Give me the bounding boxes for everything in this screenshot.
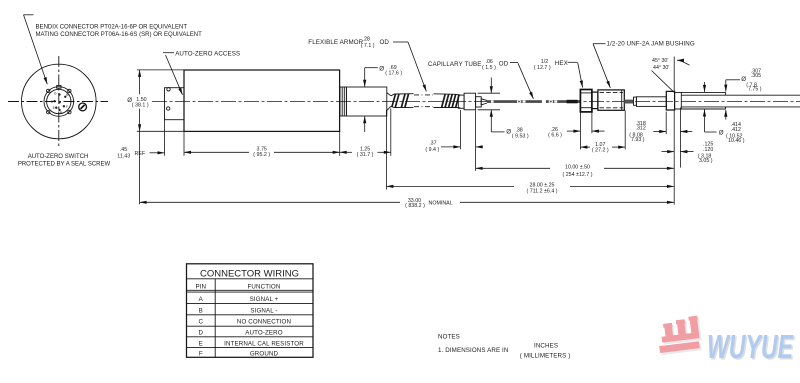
- svg-text:CAPILLARY TUBE: CAPILLARY TUBE: [428, 61, 482, 68]
- dim .38 dia: [478, 78, 529, 140]
- svg-text:( 38.1 ): ( 38.1 ): [132, 103, 149, 109]
- angle callout 45 30: [652, 58, 690, 92]
- capillary tube: [487, 100, 581, 104]
- svg-text:.45: .45: [120, 147, 127, 153]
- svg-text:D: D: [199, 329, 204, 336]
- svg-text:INCHES: INCHES: [534, 342, 558, 349]
- svg-text:NOMINAL: NOMINAL: [429, 200, 453, 206]
- armor coil strokes: [392, 94, 459, 108]
- dim 33.00 nominal: [140, 198, 674, 209]
- dim .318: [629, 112, 666, 144]
- jam bushing label: [593, 41, 695, 88]
- svg-text:Ø: Ø: [506, 128, 511, 135]
- dim 1.07: [580, 142, 625, 154]
- wuyue logo mark: [656, 316, 703, 355]
- auto-zero switch note: [18, 154, 111, 168]
- svg-text:AUTO-ZERO ACCESS: AUTO-ZERO ACCESS: [175, 50, 240, 57]
- extension lines left: [165, 109, 391, 190]
- svg-text:MATING CONNECTOR PT06A-16-6S: MATING CONNECTOR PT06A-16-6S (SR) OR EQU…: [36, 32, 203, 38]
- svg-text:INTERNAL CAL RESISTOR: INTERNAL CAL RESISTOR: [224, 340, 304, 347]
- svg-text:( 12.7 ): ( 12.7 ): [534, 65, 551, 71]
- svg-text:.120: .120: [703, 147, 713, 153]
- svg-text:PROTECTED BY A SEAL SCREW: PROTECTED BY A SEAL SCREW: [18, 161, 111, 167]
- svg-text:BENDIX CONNECTOR PT02A-16-6P: BENDIX CONNECTOR PT02A-16-6P OR EQUIVALE…: [36, 24, 188, 30]
- svg-text:F: F: [199, 351, 203, 358]
- auto-zero access label: [163, 50, 240, 95]
- svg-text:F: F: [66, 105, 68, 109]
- notes: [438, 334, 570, 360]
- svg-text:( 711.2 ±6.4 ): ( 711.2 ±6.4 ): [526, 188, 557, 194]
- jam bushing threaded body: [598, 90, 624, 110]
- dim 1.25: [340, 146, 391, 158]
- svg-text:( 9.4 ): ( 9.4 ): [425, 147, 439, 153]
- backshell block: [165, 88, 185, 120]
- svg-text:45° 30': 45° 30': [652, 58, 668, 64]
- end view horizontal centerline: [8, 101, 108, 103]
- svg-text:E: E: [199, 340, 203, 347]
- bendix connector label: [36, 24, 203, 38]
- svg-text:3.05 ): 3.05 ): [699, 158, 713, 164]
- end view outer circle: [22, 64, 97, 139]
- svg-text:( 27.2 ): ( 27.2 ): [592, 147, 609, 153]
- svg-text:( 95.2 ): ( 95.2 ): [253, 152, 270, 158]
- flexible armor label: [308, 36, 426, 91]
- svg-text:( 17.6 ): ( 17.6 ): [385, 71, 402, 77]
- connector shell ring: [44, 86, 74, 117]
- seal screw: [79, 103, 87, 111]
- svg-text:FLEXIBLE ARMOR: FLEXIBLE ARMOR: [308, 39, 363, 46]
- svg-text:OD: OD: [380, 39, 390, 46]
- svg-text:AUTO-ZERO SWITCH: AUTO-ZERO SWITCH: [28, 154, 89, 160]
- svg-text:.305: .305: [751, 73, 761, 79]
- dim 3.75: [184, 146, 340, 158]
- svg-text:( 254 ±12.7 ): ( 254 ±12.7 ): [563, 172, 593, 178]
- svg-text:REF: REF: [135, 151, 146, 157]
- svg-text:( 6.6 ): ( 6.6 ): [548, 133, 562, 139]
- svg-text:A: A: [199, 296, 204, 303]
- svg-text:NO CONNECTION: NO CONNECTION: [237, 319, 291, 326]
- svg-text:HEX: HEX: [555, 60, 568, 67]
- flexible armor outline: [391, 94, 461, 108]
- tip extension lines: [674, 57, 680, 205]
- svg-text:( 1.5 ): ( 1.5 ): [482, 65, 496, 71]
- svg-text:B: B: [199, 307, 203, 314]
- dim 10.00: [476, 165, 674, 178]
- svg-text:.28: .28: [363, 36, 370, 42]
- svg-text:1/2-20 UNF-2A JAM BUSHING: 1/2-20 UNF-2A JAM BUSHING: [607, 41, 695, 48]
- collar rings: [340, 87, 346, 116]
- dim 1.50 dia: [127, 70, 184, 204]
- dim 28.00: [386, 182, 674, 194]
- svg-text:CONNECTOR WIRING: CONNECTOR WIRING: [200, 269, 299, 280]
- svg-text:1. DIMENSIONS ARE IN: 1. DIMENSIONS ARE IN: [438, 347, 508, 354]
- svg-text:PIN: PIN: [195, 284, 206, 291]
- probe stem: [624, 97, 666, 107]
- svg-text:FUNCTION: FUNCTION: [248, 284, 281, 291]
- hex nut: [580, 90, 592, 112]
- svg-text:( 838.2 ): ( 838.2 ): [405, 203, 425, 209]
- svg-text:.312: .312: [636, 125, 646, 131]
- tip flange: [666, 91, 674, 110]
- svg-text:10.00 ±.50: 10.00 ±.50: [565, 165, 590, 171]
- tip tube OD .414: [675, 92, 726, 109]
- main body cylinder: [184, 70, 340, 131]
- svg-text:( 9.53 ): ( 9.53 ): [512, 133, 529, 139]
- dim .69 dia: [365, 65, 403, 132]
- svg-text:OD: OD: [499, 60, 509, 67]
- svg-text:SIGNAL +: SIGNAL +: [250, 296, 279, 303]
- svg-text:44° 30': 44° 30': [653, 65, 669, 71]
- dim .26: [548, 127, 604, 138]
- svg-text:SIGNAL -: SIGNAL -: [250, 307, 277, 314]
- svg-text:GROUND: GROUND: [250, 351, 279, 358]
- connector wiring table: [187, 264, 314, 358]
- svg-text:Ø: Ø: [719, 130, 724, 137]
- svg-text:WUYUE: WUYUE: [707, 328, 794, 365]
- svg-text:Ø: Ø: [379, 65, 384, 72]
- svg-text:( MILLIMETERS ): ( MILLIMETERS ): [520, 353, 571, 360]
- svg-text:7.93 ): 7.93 ): [631, 137, 645, 143]
- svg-text:( 7.1 ): ( 7.1 ): [361, 43, 375, 49]
- svg-text:28.00 ±.25: 28.00 ±.25: [530, 182, 555, 188]
- connector pins: [51, 92, 70, 115]
- svg-text:10.46 ): 10.46 ): [728, 138, 745, 144]
- wuyue logo text: [707, 328, 795, 367]
- cable fitting: [458, 93, 487, 110]
- bendix connector leader: [24, 15, 48, 84]
- dim .45 REF: [117, 147, 164, 159]
- dia .307 leader: [726, 69, 762, 120]
- svg-text:G: G: [54, 92, 57, 96]
- svg-text:C: C: [199, 319, 204, 326]
- svg-text:.412: .412: [731, 127, 741, 133]
- svg-text:AUTO-ZERO: AUTO-ZERO: [245, 329, 282, 336]
- end view vertical centerline: [58, 56, 60, 147]
- dim .37: [425, 110, 483, 171]
- hex collar: [592, 92, 598, 109]
- svg-text:11.43: 11.43: [117, 153, 130, 159]
- svg-text:NOTES: NOTES: [438, 334, 460, 341]
- main centerline: [152, 101, 800, 103]
- svg-text:7.75 ): 7.75 ): [748, 86, 762, 92]
- dia .414 leader: [705, 82, 745, 144]
- svg-text:( 31.7 ): ( 31.7 ): [357, 152, 374, 158]
- hex label: [534, 59, 583, 88]
- armor adapter: [346, 87, 391, 116]
- capillary tube label: [428, 59, 534, 99]
- hex extension lines: [580, 111, 625, 150]
- tip tube OD .307: [681, 95, 800, 107]
- dim .125: [662, 132, 714, 165]
- svg-text:.37: .37: [429, 140, 436, 146]
